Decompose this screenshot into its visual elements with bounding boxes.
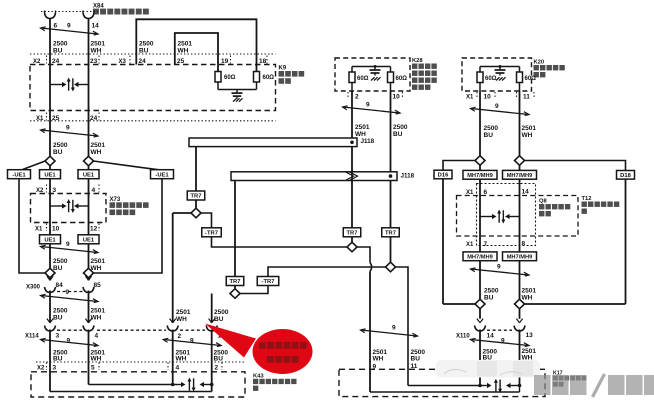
svg-text:2500: 2500 [393, 124, 408, 131]
svg-text:2501: 2501 [178, 41, 193, 48]
splice diamond BU (d4) [386, 262, 396, 272]
Q8 internal bus symbol [480, 216, 493, 218]
svg-text:23: 23 [90, 58, 98, 65]
box TR7 on WH (K28 col) [343, 228, 361, 237]
svg-text:24: 24 [139, 58, 147, 65]
crossing bump on P1 at y267 [370, 263, 372, 272]
svg-text:2: 2 [178, 333, 182, 340]
K43 internal bus symbol [171, 383, 175, 387]
svg-text:K20: K20 [534, 60, 545, 66]
capacitor to ground [499, 65, 502, 68]
box D18 [617, 171, 635, 180]
svg-text:2500: 2500 [53, 308, 68, 315]
wire: diamond4 right branch down to K17 pin 11 [395, 267, 408, 386]
svg-text:2501: 2501 [176, 309, 191, 316]
svg-text:BU: BU [411, 355, 421, 362]
svg-text:X3: X3 [119, 59, 127, 65]
svg-text:84: 84 [56, 282, 64, 289]
svg-text:24: 24 [52, 58, 60, 65]
wire: right -UE1 long run to lower diamond [94, 179, 163, 274]
module K43 power steering control module box [31, 372, 245, 397]
BCM internal bus symbol [50, 84, 63, 86]
wire: MH7/MH9 row2 to bottom diamonds [479, 261, 481, 300]
module K17 electronic brake control module box [339, 369, 545, 396]
svg-text:-TR7: -TR7 [262, 279, 275, 285]
module K28 headlamp leveling control module box [335, 58, 410, 91]
wire: -TR7 lower to diamond5 [240, 285, 268, 294]
svg-text:X1: X1 [466, 95, 474, 101]
box TR7 on BU (K28 col) [382, 228, 400, 237]
wire: K28 pin10 2500 BU down to TR7 [390, 91, 392, 228]
box MH7/MH9 (row2 right) [503, 252, 537, 261]
svg-text:2500: 2500 [53, 41, 68, 48]
svg-text:9: 9 [495, 103, 499, 110]
svg-text:2500: 2500 [214, 309, 229, 316]
svg-text:18: 18 [259, 58, 267, 65]
svg-text:D18: D18 [620, 173, 631, 179]
svg-text:10: 10 [393, 94, 401, 101]
splice diamond WH [84, 156, 94, 166]
svg-text:2501: 2501 [355, 124, 370, 131]
svg-text:9: 9 [190, 338, 194, 345]
svg-text:MH7/MH9: MH7/MH9 [467, 173, 493, 179]
svg-text:9: 9 [67, 23, 71, 30]
twisted pair below K73 [41, 247, 98, 253]
svg-text:WH: WH [91, 315, 102, 322]
wire: X300 cup to X114 fork [49, 291, 51, 323]
wire: bottom diamonds to X110 [479, 309, 481, 319]
svg-text:-TR7: -TR7 [205, 230, 218, 236]
wire: UE1 to K73 X2 row [49, 179, 51, 195]
svg-text:25: 25 [177, 58, 185, 65]
box -TR7 lower [257, 277, 279, 286]
svg-text:60Ω: 60Ω [396, 76, 408, 82]
svg-text:2501: 2501 [91, 308, 106, 315]
svg-text:60Ω: 60Ω [357, 76, 369, 82]
module K9 body control module box [30, 53, 276, 55]
svg-text:X114: X114 [25, 334, 39, 340]
K17 internal bus symbol [478, 384, 482, 388]
svg-text:2501: 2501 [522, 288, 537, 295]
chevron pass-through of WH wire on lower bar [347, 173, 357, 179]
box -UE1 left [8, 170, 31, 179]
box TR7 lower (bar2 tap) [226, 277, 244, 286]
svg-text:X300: X300 [26, 285, 41, 291]
svg-text:K9: K9 [279, 66, 287, 72]
wire: top diamonds to MH7/MH9 boxes [479, 165, 481, 171]
svg-text:85: 85 [94, 282, 102, 289]
wire: mid 2500 BU from diamond5 down to X114 and K43 [211, 294, 213, 323]
module K20 engine control module box [462, 58, 532, 91]
svg-text:5: 5 [91, 365, 95, 372]
svg-text:2500: 2500 [484, 125, 499, 132]
svg-text:WH: WH [176, 316, 187, 323]
twisted pairs below X114 [41, 340, 98, 346]
svg-text:2500: 2500 [53, 142, 68, 149]
svg-text:7: 7 [484, 241, 488, 248]
svg-text:TR7: TR7 [385, 230, 396, 236]
svg-text:UE1: UE1 [44, 237, 56, 243]
splice diamond WH (d3) [347, 242, 357, 252]
svg-text:BU: BU [484, 295, 494, 302]
svg-text:UE1: UE1 [83, 237, 95, 243]
wire: diamond3 right branch down to K17 pin 9 [357, 247, 370, 263]
svg-text:3: 3 [56, 333, 60, 340]
wire: BCM X3-25 loop up/over to pin 19 [175, 33, 218, 72]
svg-text:WH: WH [178, 48, 189, 55]
svg-text:3: 3 [53, 365, 57, 372]
svg-text:2501: 2501 [91, 258, 106, 265]
twisted pair below MH7/MH9 [471, 269, 529, 275]
svg-text:10: 10 [52, 226, 60, 233]
wire: left -UE1 long run to lower diamond [19, 179, 45, 274]
svg-text:Q8: Q8 [539, 199, 548, 205]
lower splice diamond WH [84, 268, 94, 278]
wire: UE1 row2 down to lower diamonds [49, 244, 51, 269]
splice pack J118 (lower bar) [231, 172, 397, 181]
svg-text:2501: 2501 [91, 142, 106, 149]
svg-text:BU: BU [53, 315, 63, 322]
splice diamond BU [45, 156, 55, 166]
twisted pair below K20 [471, 109, 529, 115]
svg-text:9: 9 [66, 289, 70, 296]
wire: DLC pin14 2501 WH down to BCM X2-23 [88, 19, 90, 157]
svg-text:TR7: TR7 [191, 194, 202, 200]
splice diamond BU (d5) [230, 289, 240, 299]
wire: D18 branch [524, 161, 625, 172]
wire: D16 branch [443, 161, 475, 171]
box MH7/MH9 (row1 right) [503, 170, 537, 179]
svg-text:13: 13 [526, 332, 534, 339]
box UE1 row2 (BU) [40, 235, 61, 244]
box -UE1 right [151, 170, 174, 179]
svg-text:14: 14 [522, 189, 530, 196]
svg-text:X1: X1 [466, 242, 474, 248]
svg-text:T12: T12 [582, 196, 592, 202]
connector row X2 of K43 [36, 361, 245, 363]
svg-text:UE1: UE1 [83, 172, 95, 178]
box -TR7 [202, 228, 222, 237]
svg-text:MH7/MH9: MH7/MH9 [507, 173, 533, 179]
svg-text:WH: WH [522, 132, 533, 139]
wire: diagonal diamond to -UE1 right [93, 161, 159, 170]
svg-text:11: 11 [411, 363, 418, 370]
svg-text:TR7: TR7 [230, 279, 241, 285]
svg-text:2: 2 [355, 94, 359, 101]
top right splice diamonds [475, 156, 485, 166]
wire: J118 tap1 down to TR7 [195, 146, 197, 192]
svg-text:TR7: TR7 [347, 230, 358, 236]
svg-text:4: 4 [176, 365, 180, 372]
wire: mid 2501 WH from J-diamond down to X114 and K43 [172, 213, 174, 323]
resistor 60 ohm right [388, 72, 394, 83]
red callout balloon [205, 324, 256, 358]
splice diamond (WH mid) [191, 208, 201, 218]
svg-text:BU: BU [484, 132, 494, 139]
resistor 60 ohm left [477, 72, 483, 83]
svg-text:WH: WH [355, 131, 366, 138]
svg-text:9: 9 [392, 325, 396, 332]
wire: diamond1 left branch [173, 212, 192, 214]
module K73 telematics interface control module box [31, 194, 107, 223]
wire: K28 pin2 2501 WH down through J118 bars to TR7 [351, 91, 353, 228]
svg-text:X73: X73 [110, 197, 121, 203]
twisted pair on K17 mid columns [361, 330, 417, 336]
svg-text:11: 11 [523, 94, 530, 101]
lower splice diamond BU [45, 268, 55, 278]
svg-text:J118: J118 [361, 138, 375, 145]
svg-text:UE1: UE1 [44, 172, 56, 178]
svg-text:X1: X1 [35, 227, 43, 233]
svg-text:BU: BU [53, 265, 63, 272]
svg-text:9: 9 [366, 102, 370, 109]
wire: diamonds to X300 fork [49, 278, 51, 281]
svg-text:14: 14 [92, 23, 100, 30]
box MH7/MH9 (row2 left) [463, 252, 497, 261]
resistor join + capacitor to ground [217, 82, 219, 90]
svg-text:-UE1: -UE1 [12, 172, 26, 178]
svg-text:X2: X2 [37, 366, 45, 372]
svg-text:2: 2 [215, 365, 219, 372]
svg-text:2500: 2500 [484, 288, 499, 295]
connector X84 data link connector [41, 11, 98, 13]
svg-text:60Ω: 60Ω [263, 75, 275, 81]
wire: BCM X3-24 loop up/over to pin 18 [136, 19, 256, 71]
svg-text:9: 9 [501, 338, 505, 345]
K43 internal rails [89, 384, 177, 386]
wire: trans columns through T12 [479, 179, 481, 252]
svg-text:K28: K28 [412, 58, 423, 64]
svg-text:12: 12 [90, 226, 98, 233]
svg-text:BU: BU [53, 149, 63, 156]
wire: X110 cups down into K17 (partly hidden by blob) [479, 330, 481, 386]
svg-text:WH: WH [373, 355, 384, 362]
box UE1 (WH) [78, 170, 99, 179]
twisted pair below K28 [343, 107, 400, 113]
svg-text:10: 10 [484, 94, 492, 101]
svg-text:BU: BU [214, 316, 224, 323]
svg-text:WH: WH [91, 149, 102, 156]
svg-text:J118: J118 [401, 173, 415, 180]
svg-text:2500: 2500 [53, 258, 68, 265]
svg-text:8: 8 [522, 241, 526, 248]
wire: through K73 box [49, 194, 51, 236]
twisted pair below X110 [471, 340, 529, 346]
grey watermark text [534, 375, 551, 395]
svg-text:-UE1: -UE1 [155, 172, 169, 178]
splice pack J118 (upper bar) [189, 138, 357, 147]
svg-text:9: 9 [373, 364, 377, 371]
wire: diamond4 left branch to -TR7 top [268, 267, 386, 277]
svg-text:BU: BU [53, 48, 63, 55]
twisted pair [41, 28, 98, 34]
svg-text:6: 6 [54, 23, 58, 30]
resistor 60 ohm right [517, 72, 523, 83]
wire: diamond1 right to -TR7 then down/right to diamond3 [201, 213, 212, 228]
K17 internal rails [408, 385, 482, 387]
svg-text:MH7/MH9: MH7/MH9 [507, 254, 533, 260]
svg-text:BU: BU [139, 48, 149, 55]
capacitor to ground [374, 65, 377, 68]
svg-text:D16: D16 [438, 173, 449, 179]
svg-text:K43: K43 [253, 374, 264, 380]
wire: X114 cup down into K43 [49, 330, 51, 392]
svg-text:2500: 2500 [139, 41, 154, 48]
box MH7/MH9 (row1 left) [463, 170, 497, 179]
Q8 control solenoid valve assembly inner box [477, 184, 536, 246]
module T12 automatic transmission box [457, 196, 579, 237]
svg-text:2501: 2501 [91, 41, 106, 48]
twisted pair below BCM [41, 130, 98, 136]
svg-text:X110: X110 [456, 334, 470, 340]
wire: diagonal diamond to -UE1 left [22, 161, 45, 170]
svg-text:X2: X2 [33, 59, 41, 65]
box TR7 (J118 tap) [187, 191, 205, 200]
box UE1 row2 (WH) [78, 235, 99, 244]
resistor 60 ohm left [349, 72, 355, 83]
wire: DLC pin6 2500 BU down to BCM X2-24 [49, 19, 51, 157]
svg-text:BU: BU [393, 131, 403, 138]
svg-text:9: 9 [66, 241, 70, 248]
svg-text:WH: WH [522, 295, 533, 302]
svg-text:9: 9 [66, 125, 70, 132]
wire: K20 pin11 2501 WH down to top diamond [519, 91, 521, 156]
svg-text:2501: 2501 [522, 125, 537, 132]
box UE1 (BU) [40, 170, 61, 179]
svg-text:4: 4 [95, 333, 99, 340]
terminating resistor 60 ohm (pin 18) [254, 72, 260, 83]
wire: J118 tap2 down to TR7 lower [234, 181, 236, 278]
svg-text:9: 9 [497, 264, 501, 271]
wire: BU between diamond and UE1 [49, 166, 51, 171]
terminating resistor 60 ohm (pin 19) [215, 72, 221, 83]
svg-text:19: 19 [221, 58, 229, 65]
svg-text:14: 14 [487, 333, 495, 340]
bottom right splice diamonds [475, 299, 485, 309]
svg-text:WH: WH [91, 48, 102, 55]
wire: K20 pin10 2500 BU down to top diamond [479, 91, 481, 156]
svg-text:60Ω: 60Ω [485, 76, 497, 82]
svg-text:MH7/MH9: MH7/MH9 [467, 254, 493, 260]
twisted pair below X300 [41, 296, 98, 302]
svg-text:60Ω: 60Ω [224, 75, 236, 81]
box D16 [434, 170, 452, 179]
erased watermark white blob [436, 360, 540, 378]
svg-text:9: 9 [67, 338, 71, 345]
